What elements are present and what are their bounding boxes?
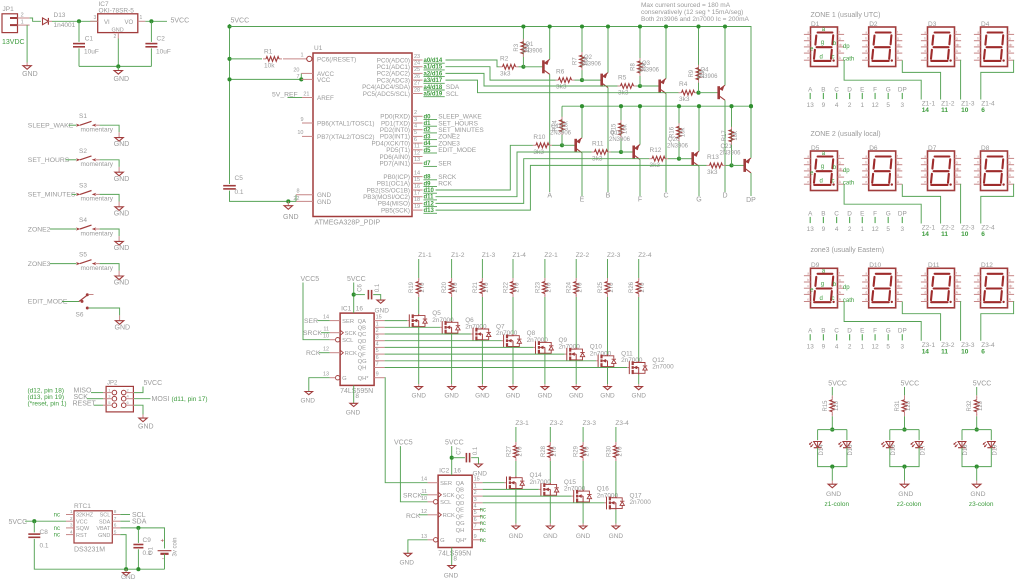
svg-text:E: E <box>860 210 864 217</box>
svg-text:D18: D18 <box>963 444 969 456</box>
svg-text:nc: nc <box>480 508 486 514</box>
svg-text:C7: C7 <box>457 447 463 455</box>
svg-text:GND: GND <box>114 245 130 252</box>
svg-text:5: 5 <box>886 226 890 233</box>
svg-text:ZONE3: ZONE3 <box>28 261 51 268</box>
svg-text:2: 2 <box>474 490 477 496</box>
svg-text:e: e <box>865 180 867 184</box>
svg-text:EDIT_MODE: EDIT_MODE <box>28 299 68 306</box>
svg-text:e: e <box>977 180 979 184</box>
svg-text:8: 8 <box>114 509 117 515</box>
svg-text:VCC5: VCC5 <box>301 276 320 283</box>
svg-text:VCC5: VCC5 <box>394 440 413 447</box>
svg-text:14: 14 <box>323 315 329 321</box>
svg-text:Z2-3: Z2-3 <box>607 252 621 259</box>
svg-text:b: b <box>977 278 979 282</box>
svg-text:12: 12 <box>323 347 329 353</box>
svg-text:SCK: SCK <box>345 331 357 337</box>
svg-text:SCK: SCK <box>443 493 455 499</box>
svg-text:PC5(ADC5/SCL): PC5(ADC5/SCL) <box>363 91 410 98</box>
svg-text:5: 5 <box>474 510 477 516</box>
svg-text:e: e <box>977 56 979 60</box>
svg-text:d: d <box>865 173 867 177</box>
svg-text:RTC1: RTC1 <box>74 503 91 510</box>
svg-text:b: b <box>924 161 926 165</box>
svg-text:4: 4 <box>835 343 839 350</box>
svg-text:Z3-2: Z3-2 <box>550 420 564 427</box>
svg-text:R32: R32 <box>967 400 973 412</box>
svg-text:g: g <box>821 281 824 287</box>
svg-text:QB: QB <box>358 326 367 332</box>
svg-text:dp: dp <box>956 167 960 171</box>
svg-text:15: 15 <box>414 177 420 183</box>
svg-text:5VCC: 5VCC <box>144 380 163 387</box>
svg-text:D5: D5 <box>811 145 820 152</box>
svg-text:DS3231M: DS3231M <box>74 546 105 553</box>
svg-text:e: e <box>807 56 809 60</box>
svg-text:Z1-3: Z1-3 <box>482 252 496 259</box>
svg-text:GND: GND <box>473 471 488 478</box>
svg-text:0.1: 0.1 <box>40 543 49 550</box>
svg-text:f: f <box>897 154 898 158</box>
svg-text:2N3906: 2N3906 <box>609 137 631 143</box>
svg-text:R9: R9 <box>689 69 695 77</box>
svg-text:b: b <box>865 278 867 282</box>
svg-text:A: A <box>808 328 813 335</box>
svg-text:GND: GND <box>411 392 426 399</box>
svg-text:QE: QE <box>456 508 465 514</box>
svg-text:270: 270 <box>552 446 558 457</box>
svg-text:SRCK: SRCK <box>403 493 422 500</box>
svg-text:6: 6 <box>376 355 379 361</box>
svg-text:f: f <box>897 30 898 34</box>
svg-text:9: 9 <box>300 117 303 123</box>
svg-text:13: 13 <box>323 372 329 378</box>
svg-text:1: 1 <box>300 53 303 59</box>
svg-text:d: d <box>807 290 809 294</box>
svg-text:12: 12 <box>872 226 880 233</box>
svg-text:(*reset, pin 1): (*reset, pin 1) <box>28 401 67 408</box>
svg-text:1n4001: 1n4001 <box>54 22 76 29</box>
svg-text:R3: R3 <box>514 43 520 51</box>
svg-text:d: d <box>820 179 823 185</box>
svg-text:14: 14 <box>922 348 930 355</box>
svg-text:D19: D19 <box>993 444 999 456</box>
svg-text:D: D <box>847 86 852 93</box>
svg-text:VO: VO <box>125 20 134 26</box>
svg-text:7: 7 <box>114 516 117 522</box>
svg-text:Z3-1: Z3-1 <box>515 420 529 427</box>
svg-text:22: 22 <box>293 196 299 202</box>
svg-text:c: c <box>832 179 835 185</box>
svg-text:5VCC: 5VCC <box>973 381 992 388</box>
svg-text:R4: R4 <box>679 81 688 88</box>
svg-text:10k: 10k <box>623 123 629 134</box>
svg-text:B: B <box>821 210 825 217</box>
svg-text:28: 28 <box>414 87 420 93</box>
svg-text:QH: QH <box>456 528 465 534</box>
svg-text:Max current sourced = 180 mA: Max current sourced = 180 mA <box>641 2 731 9</box>
svg-text:PB5(SCK): PB5(SCK) <box>381 207 410 214</box>
svg-text:GND: GND <box>317 199 331 206</box>
svg-text:QF: QF <box>456 514 465 520</box>
svg-text:2: 2 <box>848 102 852 109</box>
svg-text:R25: R25 <box>598 281 604 293</box>
svg-text:4: 4 <box>70 529 73 535</box>
svg-text:g: g <box>821 164 824 170</box>
svg-text:Q20: Q20 <box>668 137 680 143</box>
svg-text:DP: DP <box>898 210 907 217</box>
svg-text:cath: cath <box>843 298 854 304</box>
svg-text:nc: nc <box>480 528 486 534</box>
svg-text:Q3: Q3 <box>642 61 651 67</box>
svg-text:14: 14 <box>922 107 930 114</box>
svg-text:SCL: SCL <box>440 500 452 506</box>
svg-text:QH: QH <box>358 366 367 372</box>
svg-text:5VCC: 5VCC <box>828 381 847 388</box>
svg-text:15: 15 <box>474 477 480 483</box>
svg-text:f: f <box>897 272 898 276</box>
svg-text:D1: D1 <box>811 21 820 28</box>
svg-text:F: F <box>873 210 877 217</box>
svg-text:270: 270 <box>640 282 646 293</box>
svg-text:3: 3 <box>901 343 905 350</box>
svg-text:10: 10 <box>961 231 969 238</box>
svg-text:11: 11 <box>941 348 948 355</box>
svg-text:nc: nc <box>480 538 486 544</box>
svg-text:f: f <box>839 272 840 276</box>
svg-text:QG: QG <box>456 521 466 527</box>
svg-text:momentary: momentary <box>81 161 114 168</box>
svg-text:g: g <box>956 161 958 165</box>
svg-text:C1: C1 <box>85 36 94 43</box>
svg-text:2N3906: 2N3906 <box>720 150 742 156</box>
svg-text:270: 270 <box>517 446 523 457</box>
svg-text:d: d <box>924 49 926 53</box>
svg-text:5VCC: 5VCC <box>445 440 464 447</box>
svg-text:c: c <box>832 55 835 61</box>
svg-text:b: b <box>865 161 867 165</box>
svg-text:G1: G1 <box>149 546 155 555</box>
svg-text:dp: dp <box>1009 284 1013 288</box>
svg-text:2N3906: 2N3906 <box>580 62 602 68</box>
svg-text:4: 4 <box>835 102 839 109</box>
svg-text:6: 6 <box>981 348 985 355</box>
svg-text:VCC: VCC <box>76 519 88 525</box>
svg-text:f: f <box>956 30 957 34</box>
svg-text:b: b <box>807 161 809 165</box>
svg-text:D10: D10 <box>869 262 881 269</box>
svg-text:GND: GND <box>114 176 130 183</box>
svg-text:10uF: 10uF <box>84 49 99 56</box>
svg-text:+: + <box>161 539 165 545</box>
svg-text:b: b <box>807 278 809 282</box>
svg-text:270: 270 <box>420 282 426 293</box>
svg-text:e: e <box>807 298 809 302</box>
svg-text:R2: R2 <box>500 55 509 62</box>
svg-text:momentary: momentary <box>81 230 114 237</box>
svg-text:Q21: Q21 <box>721 144 733 150</box>
svg-text:a: a <box>807 154 809 158</box>
svg-text:Z1-2: Z1-2 <box>451 252 465 259</box>
svg-text:g: g <box>897 37 899 41</box>
svg-text:3k3: 3k3 <box>707 169 718 176</box>
svg-text:0.1: 0.1 <box>375 283 381 292</box>
svg-text:1: 1 <box>861 343 865 350</box>
svg-text:13: 13 <box>807 343 815 350</box>
svg-text:120: 120 <box>834 400 840 411</box>
svg-text:B: B <box>821 86 825 93</box>
svg-text:1: 1 <box>140 15 143 21</box>
svg-text:R24: R24 <box>567 281 573 293</box>
svg-text:d: d <box>977 290 979 294</box>
svg-text:C8: C8 <box>40 529 49 536</box>
svg-text:QB: QB <box>456 488 465 494</box>
svg-text:a: a <box>924 30 926 34</box>
svg-text:2: 2 <box>848 343 852 350</box>
svg-text:f: f <box>839 154 840 158</box>
svg-text:GND: GND <box>444 573 459 579</box>
svg-text:Z3-4: Z3-4 <box>615 420 629 427</box>
svg-text:D4: D4 <box>981 21 990 28</box>
svg-text:Z2-2: Z2-2 <box>576 252 590 259</box>
svg-text:IC1: IC1 <box>341 306 352 313</box>
svg-text:2: 2 <box>114 34 117 40</box>
svg-text:11: 11 <box>323 327 329 333</box>
svg-text:S2: S2 <box>79 148 87 155</box>
svg-text:10k: 10k <box>681 127 687 138</box>
svg-text:ATMEGA328P_PDIP: ATMEGA328P_PDIP <box>315 220 381 227</box>
svg-text:dp: dp <box>956 284 960 288</box>
svg-text:GND: GND <box>509 533 524 540</box>
svg-text:GND: GND <box>826 491 841 498</box>
svg-text:GND: GND <box>444 392 459 399</box>
svg-text:D15: D15 <box>848 444 854 456</box>
svg-text:24: 24 <box>414 61 420 67</box>
svg-text:Q2: Q2 <box>584 55 593 61</box>
svg-text:3k3: 3k3 <box>556 84 567 91</box>
svg-text:d: d <box>977 173 979 177</box>
svg-text:10uF: 10uF <box>156 49 171 56</box>
svg-text:GND: GND <box>538 392 553 399</box>
svg-text:3: 3 <box>94 15 97 21</box>
svg-text:SET_HOURS: SET_HOURS <box>28 157 70 164</box>
svg-text:S4: S4 <box>79 217 87 224</box>
svg-text:QG: QG <box>358 359 368 365</box>
svg-text:PB6(XTAL1/TOSC1): PB6(XTAL1/TOSC1) <box>317 120 375 127</box>
svg-text:b: b <box>977 37 979 41</box>
svg-text:R20: R20 <box>442 281 448 293</box>
svg-text:f: f <box>839 30 840 34</box>
svg-text:D7: D7 <box>928 145 937 152</box>
svg-text:D9: D9 <box>811 262 820 269</box>
svg-text:C: C <box>663 193 668 200</box>
svg-text:AREF: AREF <box>317 95 334 102</box>
svg-text:17: 17 <box>414 191 420 197</box>
svg-text:E: E <box>580 197 585 204</box>
svg-text:G: G <box>440 538 445 544</box>
svg-text:B: B <box>606 193 611 200</box>
svg-text:b: b <box>977 161 979 165</box>
svg-text:2N3906: 2N3906 <box>521 48 543 54</box>
svg-text:f: f <box>956 272 957 276</box>
svg-text:R11: R11 <box>592 141 604 148</box>
svg-text:3v coin: 3v coin <box>173 537 179 556</box>
svg-text:JP1: JP1 <box>3 6 15 13</box>
svg-text:270: 270 <box>609 282 615 293</box>
svg-text:5: 5 <box>886 343 890 350</box>
svg-text:D16: D16 <box>891 444 897 456</box>
svg-text:d: d <box>865 290 867 294</box>
svg-text:QD: QD <box>456 501 465 507</box>
svg-text:GND: GND <box>576 533 591 540</box>
svg-text:D: D <box>722 193 727 200</box>
svg-text:11: 11 <box>414 144 420 150</box>
svg-text:GND: GND <box>475 392 490 399</box>
svg-text:5: 5 <box>414 130 417 136</box>
svg-text:U1: U1 <box>314 45 323 52</box>
svg-text:z2-colon: z2-colon <box>897 501 922 508</box>
svg-text:E: E <box>860 86 864 93</box>
svg-text:R7: R7 <box>573 57 579 65</box>
svg-text:1: 1 <box>70 509 73 515</box>
svg-text:e: e <box>924 56 926 60</box>
svg-text:270: 270 <box>585 446 591 457</box>
svg-text:SQW: SQW <box>76 526 90 532</box>
svg-text:270: 270 <box>546 282 552 293</box>
svg-text:R26: R26 <box>629 281 635 293</box>
svg-text:OKI-78SR-5: OKI-78SR-5 <box>99 8 135 15</box>
svg-text:8: 8 <box>355 393 359 400</box>
svg-text:a: a <box>865 272 867 276</box>
svg-text:32KHZ: 32KHZ <box>76 513 94 519</box>
svg-text:25: 25 <box>414 67 420 73</box>
svg-text:RCK: RCK <box>443 513 455 519</box>
svg-text:R13: R13 <box>707 154 719 161</box>
svg-text:e: e <box>865 298 867 302</box>
svg-text:13: 13 <box>421 534 427 540</box>
svg-text:R1: R1 <box>264 49 273 56</box>
svg-text:e: e <box>924 180 926 184</box>
svg-text:SCL: SCL <box>446 91 459 98</box>
svg-text:g: g <box>839 161 841 165</box>
svg-text:Q19: Q19 <box>610 131 622 137</box>
svg-text:120: 120 <box>978 400 984 411</box>
svg-text:dp: dp <box>843 285 850 291</box>
svg-text:16: 16 <box>414 184 420 190</box>
svg-text:dp: dp <box>843 44 850 50</box>
svg-text:F: F <box>873 328 877 335</box>
svg-text:5: 5 <box>114 529 117 535</box>
svg-text:g: g <box>1009 37 1011 41</box>
svg-text:10k: 10k <box>564 120 570 131</box>
svg-text:VI: VI <box>104 20 110 26</box>
svg-text:VBAT: VBAT <box>96 526 111 532</box>
svg-text:GND: GND <box>114 210 130 217</box>
svg-text:Z2-1: Z2-1 <box>544 252 558 259</box>
svg-text:A: A <box>547 193 552 200</box>
svg-text:C: C <box>834 328 839 335</box>
svg-text:27: 27 <box>414 81 420 87</box>
svg-text:d: d <box>820 296 823 302</box>
svg-text:nc: nc <box>480 514 486 520</box>
svg-text:14: 14 <box>414 170 420 176</box>
svg-text:9: 9 <box>376 372 379 378</box>
svg-text:Q4: Q4 <box>701 68 710 74</box>
svg-text:nc: nc <box>54 526 60 532</box>
svg-text:PB7(XTAL2/TOSC2): PB7(XTAL2/TOSC2) <box>317 134 375 141</box>
svg-text:dp: dp <box>897 284 901 288</box>
svg-text:4: 4 <box>835 226 839 233</box>
svg-text:GND: GND <box>114 141 130 148</box>
svg-text:GND: GND <box>898 491 913 498</box>
svg-text:SER: SER <box>440 481 452 487</box>
svg-text:QA: QA <box>358 319 367 325</box>
svg-text:19: 19 <box>414 204 420 210</box>
svg-text:d: d <box>807 49 809 53</box>
svg-text:8: 8 <box>453 555 457 562</box>
svg-text:R10: R10 <box>533 134 545 141</box>
svg-text:nc: nc <box>54 513 60 519</box>
svg-text:B: B <box>821 328 825 335</box>
svg-text:e: e <box>924 298 926 302</box>
svg-text:JP2: JP2 <box>107 380 118 386</box>
svg-text:R29: R29 <box>574 445 580 457</box>
svg-text:5: 5 <box>886 102 890 109</box>
svg-text:ZONE 1 (usually UTC): ZONE 1 (usually UTC) <box>811 12 881 19</box>
svg-text:GND: GND <box>138 424 154 431</box>
svg-text:3: 3 <box>901 102 905 109</box>
svg-text:S6: S6 <box>76 312 84 319</box>
svg-text:-: - <box>162 557 164 563</box>
svg-text:2n7000: 2n7000 <box>630 499 652 506</box>
svg-text:GND: GND <box>283 214 299 221</box>
svg-text:4: 4 <box>414 124 417 130</box>
svg-text:SCL: SCL <box>342 338 354 344</box>
svg-text:GND: GND <box>301 398 316 405</box>
svg-text:dp: dp <box>1009 43 1013 47</box>
svg-text:d: d <box>820 55 823 61</box>
svg-text:b: b <box>924 37 926 41</box>
svg-text:ZONE 2 (usually local): ZONE 2 (usually local) <box>811 131 881 138</box>
svg-text:a: a <box>865 154 867 158</box>
svg-text:SET_MINUTES: SET_MINUTES <box>28 192 76 199</box>
svg-text:G: G <box>886 86 891 93</box>
svg-text:Q1: Q1 <box>525 42 534 48</box>
svg-text:D11: D11 <box>928 262 940 269</box>
svg-text:S3: S3 <box>79 182 87 189</box>
svg-text:SDA: SDA <box>99 519 111 525</box>
svg-text:e: e <box>865 56 867 60</box>
svg-text:C: C <box>834 86 839 93</box>
svg-text:R12: R12 <box>650 147 662 154</box>
svg-text:S1: S1 <box>79 113 87 120</box>
svg-text:6: 6 <box>474 517 477 523</box>
svg-text:14: 14 <box>922 231 930 238</box>
svg-text:10: 10 <box>421 496 427 502</box>
svg-text:f: f <box>1009 154 1010 158</box>
svg-text:C5: C5 <box>235 175 244 182</box>
svg-text:a: a <box>924 154 926 158</box>
svg-text:c: c <box>832 296 835 302</box>
svg-text:g: g <box>1009 161 1011 165</box>
svg-text:10: 10 <box>961 107 969 114</box>
svg-text:1: 1 <box>861 226 865 233</box>
svg-text:20: 20 <box>293 67 299 73</box>
svg-text:GND: GND <box>970 491 985 498</box>
svg-text:nc: nc <box>54 533 60 539</box>
svg-text:7: 7 <box>296 74 299 80</box>
